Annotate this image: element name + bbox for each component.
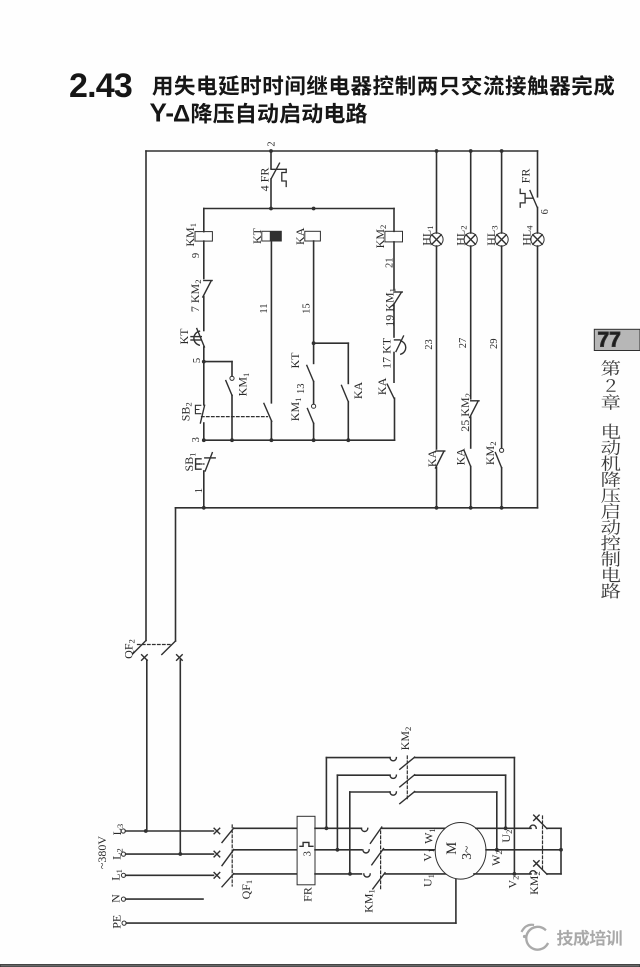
- indicator lamp HL1: [430, 233, 443, 246]
- node dot L2/KM2bypass: [336, 848, 340, 852]
- wire KM1 aux to rail3: [231, 395, 233, 440]
- wire KA to rail1 (HL2): [470, 467, 472, 508]
- mech link dashed QF2: [138, 644, 171, 646]
- bottom page border: [0, 965, 640, 967]
- wire KT-C segment: [313, 343, 315, 363]
- node dot V2: [513, 872, 517, 876]
- label M: [444, 842, 460, 855]
- label 4 FR: [258, 168, 272, 192]
- relay contact KA NO (branch D): [387, 384, 394, 398]
- wire L2 QF1-FR section: [234, 849, 297, 851]
- label KM2 (star): [527, 871, 542, 895]
- svg-text:15: 15: [301, 303, 312, 314]
- wire FR2 to HL4: [537, 208, 539, 234]
- wire KA to rail3 end: [394, 398, 396, 440]
- time relay contact KT NO (branch C): [307, 365, 314, 381]
- label HL2: [453, 225, 468, 245]
- wire KA aux to rail3: [347, 402, 349, 441]
- svg-text:FR: FR: [519, 169, 533, 184]
- label terminal V2: [506, 876, 521, 889]
- wire KTNC to KA contact: [393, 353, 395, 383]
- wire phase L3 left section: [125, 830, 213, 832]
- svg-text:L3: L3: [110, 824, 125, 836]
- indicator lamp HL4: [531, 233, 544, 246]
- node dot U2: [504, 826, 508, 830]
- aux contact KM2 normally-closed (lamp HL2 branch): [470, 401, 479, 418]
- label 19 KM1: [382, 288, 397, 327]
- terminal circle PE: [122, 921, 126, 925]
- circuit breaker QF2 pole 2: [162, 641, 182, 854]
- circuit breaker QF1 pole L1: [214, 873, 234, 887]
- wire rail4 corner down to KM2 coil: [393, 209, 395, 232]
- label contact KA (HL2 branch): [453, 448, 467, 466]
- label QF2: [122, 639, 137, 659]
- node dot rail1/HL1: [435, 506, 439, 510]
- aux contact KM2 NO (lamp HL3 branch): [495, 448, 503, 468]
- label coil KA: [293, 227, 307, 245]
- svg-text:7 KM2: 7 KM2: [188, 279, 203, 312]
- wire HL3 branch (wire 29): [501, 246, 503, 448]
- watermark text: [557, 930, 622, 946]
- contactor coil KM2: [385, 231, 403, 242]
- terminal circle N: [121, 897, 125, 901]
- label coil KM2: [373, 225, 388, 249]
- contactor KM2 delta contact row1 (L3 to V2): [326, 757, 514, 874]
- svg-text:21: 21: [385, 257, 396, 268]
- mech link dashed KM2 bypass: [406, 756, 408, 799]
- svg-text:QF1: QF1: [239, 880, 254, 900]
- node dot rail3/KM1aux: [230, 438, 234, 442]
- wire nodeC to KA aux branch: [314, 343, 349, 383]
- node dot L3/KM2bypass: [325, 826, 329, 830]
- relay contact KA NO (lamp HL2 branch): [464, 450, 471, 467]
- svg-text:29: 29: [489, 339, 500, 350]
- node dot rail1/HL3: [500, 506, 504, 510]
- wire node5 to SB2: [203, 362, 205, 405]
- wire bottom rail corner down to QF2 pole2: [175, 508, 177, 641]
- svg-text:KT: KT: [250, 227, 264, 244]
- svg-text:SB2: SB2: [178, 402, 193, 421]
- wire HL2 branch upper: [470, 151, 472, 233]
- svg-text:KM2: KM2: [527, 871, 542, 895]
- label node 5: [192, 358, 203, 363]
- svg-text:3: 3: [302, 851, 313, 856]
- thermal overload relay FR heater box: [297, 816, 315, 885]
- terminal circle L3: [121, 829, 125, 833]
- node dot branch C: [312, 341, 316, 345]
- node dot L3/QF2: [144, 829, 148, 833]
- wire HL1 branch (wire 23): [436, 246, 438, 449]
- node dot W2: [495, 848, 499, 852]
- mech link dashed QF1: [231, 825, 233, 886]
- label ~380V: [95, 836, 109, 869]
- contactor KM1 main contact L1: [364, 873, 385, 889]
- svg-text:U2: U2: [499, 830, 514, 843]
- wire HL3 branch upper: [501, 151, 503, 233]
- node dot 5: [202, 360, 206, 364]
- circuit breaker QF1 pole L3: [214, 828, 234, 843]
- svg-text:HL3: HL3: [484, 225, 499, 245]
- label L3: [110, 824, 125, 836]
- label wire number 27: [458, 338, 469, 349]
- svg-text:FR: FR: [301, 887, 315, 902]
- start pushbutton SB2 (contact b): [264, 403, 272, 421]
- wire L3 QF1-FR section: [234, 827, 297, 829]
- wire KM2NC to KA contact: [470, 417, 472, 448]
- label 25 KM2: [458, 393, 473, 432]
- node dot rail4/KA: [312, 207, 316, 211]
- label contact KT (branch C): [288, 352, 302, 369]
- label FR (power): [301, 887, 315, 902]
- label HL4: [519, 225, 534, 246]
- wire KT contact to node 5: [203, 347, 205, 362]
- svg-text:KA: KA: [351, 382, 365, 400]
- relay contact KA NO self-hold: [342, 385, 349, 401]
- title line 2: [150, 97, 368, 127]
- node dot star point: [559, 848, 563, 852]
- svg-text:PE: PE: [109, 915, 123, 929]
- svg-text:HL2: HL2: [453, 225, 468, 245]
- svg-text:QF2: QF2: [122, 639, 137, 659]
- wire KT coil to SB2b (wire 11): [270, 241, 272, 403]
- label SB1: [182, 453, 197, 472]
- svg-text:17 KT: 17 KT: [380, 337, 394, 369]
- label terminal U1: [421, 874, 436, 887]
- wire KM1 coil to KM2 NC contact (node 9): [203, 241, 205, 278]
- svg-text:6: 6: [540, 209, 551, 214]
- contactor KM1 main contact L3: [361, 827, 381, 843]
- page number box 77: [594, 329, 640, 352]
- label wire number 15: [301, 303, 312, 314]
- title line 1: [152, 75, 614, 96]
- label QF1: [239, 880, 254, 900]
- node dot rail3/KAaux: [346, 438, 350, 442]
- time relay contact KT delayed (branch A): [191, 329, 204, 348]
- stop pushbutton SB1 normally-closed: [196, 453, 216, 471]
- svg-text:5: 5: [192, 358, 203, 363]
- label contact KA (HL1 branch): [425, 449, 439, 467]
- wire W2 line: [486, 849, 561, 851]
- terminal circle L1: [121, 873, 125, 877]
- node dot net2/FR branch: [269, 149, 273, 153]
- label terminal W1: [422, 828, 437, 844]
- aux contact KM1 normally-closed (branch D): [393, 292, 402, 306]
- label contact KM1 (branch C): [288, 398, 303, 422]
- svg-text:KM2: KM2: [373, 225, 388, 249]
- start pushbutton SB2 (contact a): [195, 405, 204, 423]
- mech link dashed SB2: [202, 416, 268, 418]
- svg-text:W1: W1: [422, 828, 437, 844]
- motor M 3~: [435, 823, 486, 880]
- aux contact KM2 normally-closed (branch A): [203, 281, 212, 298]
- label contact KM2 (HL3 branch): [483, 441, 498, 465]
- node dot rail3/SB1: [202, 438, 206, 442]
- label contact KT (branch A): [177, 328, 191, 345]
- label wire number 21: [385, 257, 396, 268]
- node dot rail1/HL2: [469, 506, 473, 510]
- svg-text:KT: KT: [177, 328, 191, 345]
- label terminal V1: [421, 849, 436, 862]
- label PE: [109, 915, 123, 929]
- wire rail net 3: [204, 439, 395, 441]
- wire HL4 to bottom rail: [537, 246, 539, 508]
- contactor coil KM1: [195, 232, 212, 242]
- wire phase L2 left section: [126, 853, 214, 855]
- relay contact KA NC (lamp HL1 branch): [436, 451, 445, 468]
- wire KM2 to rail1 (HL3): [501, 468, 503, 508]
- svg-text:HL4: HL4: [519, 225, 534, 246]
- wire SB2b to rail3: [270, 421, 272, 440]
- label coil KT: [250, 227, 264, 244]
- circuit breaker QF2 pole 1: [133, 641, 148, 832]
- contactor KM2 delta contact row2 (L2 to U2): [337, 775, 505, 850]
- svg-text:Δ: Δ: [173, 100, 190, 127]
- svg-text:KT: KT: [288, 352, 302, 369]
- svg-text:1: 1: [194, 488, 205, 493]
- time relay contact KT delayed NC (branch D): [395, 336, 406, 354]
- svg-text:L2: L2: [109, 848, 124, 860]
- wire L1 FR-KM1 section: [315, 873, 361, 875]
- node dot rail4/KT: [269, 207, 273, 211]
- wire L1 QF1-FR section: [234, 873, 297, 875]
- label 7 KM2: [188, 279, 203, 312]
- svg-text:KA: KA: [425, 449, 439, 467]
- svg-text:V2: V2: [506, 876, 521, 889]
- terminal circle L2: [121, 852, 125, 856]
- wire rail net 4 (coil bus): [204, 208, 394, 210]
- contactor KM2 delta contact row3 (L1 to W2): [350, 792, 497, 874]
- svg-text:23: 23: [424, 339, 435, 350]
- svg-text:Y-: Y-: [150, 97, 175, 127]
- aux contact KM1 NO (branch C): [307, 404, 315, 423]
- sidebar chapter text: [601, 360, 620, 598]
- wire node5 to KM1 aux branch: [204, 362, 232, 376]
- svg-text:11: 11: [259, 304, 270, 314]
- wire L1 KM1-motor section: [385, 873, 448, 875]
- wire top rail net 2: [146, 150, 538, 152]
- label wire number 9: [191, 253, 202, 258]
- svg-text:KM1: KM1: [288, 398, 303, 422]
- svg-text:2.43: 2.43: [69, 67, 132, 105]
- label wire number 29: [489, 339, 500, 350]
- node dot net2/HL2 branch: [469, 149, 473, 153]
- heading number 2.43: [69, 67, 132, 105]
- svg-text:KA: KA: [375, 377, 389, 395]
- label SB2: [178, 402, 193, 421]
- svg-text:77: 77: [598, 329, 621, 352]
- label rail number 3: [191, 437, 202, 442]
- wire KA coil to node C (wire 15): [313, 241, 315, 343]
- label HL1: [420, 225, 435, 245]
- label FR (lamp branch): [519, 169, 533, 184]
- label terminal U2: [499, 830, 514, 843]
- wire neutral N: [126, 898, 203, 900]
- thermal overload contact FR (lamp branch): [520, 189, 537, 207]
- svg-text:4 FR: 4 FR: [258, 168, 272, 192]
- node dot L2/QF2: [178, 852, 182, 856]
- wire U2 line: [476, 827, 531, 829]
- wire star point vertical: [560, 828, 562, 874]
- label contact KA self-hold: [351, 382, 365, 400]
- aux contact KM1 normally-open self-hold: [226, 376, 234, 395]
- wire SB1 to bottom rail (node 1): [203, 471, 205, 508]
- wire V2 line left part: [474, 873, 531, 875]
- svg-text:3: 3: [191, 437, 202, 442]
- node dot net2/HL3 branch: [500, 149, 504, 153]
- wire L3 KM1-motor section: [382, 827, 446, 829]
- label L1: [109, 869, 124, 881]
- wire SB2 to rail3 (branch A): [203, 423, 205, 440]
- label KM2 (bypass): [398, 727, 413, 751]
- wire protective earth PE: [126, 879, 456, 923]
- svg-text:KM2: KM2: [483, 441, 498, 465]
- label KM1 (power): [362, 889, 377, 913]
- label coil KM1: [183, 223, 198, 247]
- svg-text:L1: L1: [109, 869, 124, 881]
- svg-text:19 KM1: 19 KM1: [382, 288, 397, 327]
- wire left feed from QF2 pole1 to top rail: [145, 151, 147, 641]
- node dot rail1/SB1: [202, 506, 206, 510]
- label wire number 13: [296, 384, 307, 395]
- label N: [109, 894, 123, 903]
- node dot L1/KM2bypass: [348, 872, 352, 876]
- contactor KM2 star contact upper (U2): [530, 815, 561, 829]
- relay coil KA: [305, 231, 321, 241]
- svg-text:SB1: SB1: [182, 453, 197, 472]
- wire bottom rail net 1: [176, 507, 538, 509]
- svg-text:KM1: KM1: [362, 889, 377, 913]
- wire FR to rail 4: [270, 179, 272, 209]
- svg-text:KA: KA: [453, 448, 467, 466]
- label 3 (FR poles): [302, 851, 313, 856]
- wire rail3 to SB1: [0, 0, 1, 1]
- wire segments branch C lower: [313, 382, 315, 441]
- node dot net2/HL1 branch: [435, 149, 439, 153]
- svg-text:W2: W2: [489, 850, 504, 866]
- wire top rail corner down to FR2: [537, 151, 539, 197]
- label L2: [109, 848, 124, 860]
- svg-text:~380V: ~380V: [95, 836, 109, 869]
- contactor KM2 star contact lower (V2): [530, 861, 561, 875]
- wire KM2 coil to KM1-NC (node 21): [393, 242, 395, 290]
- node dot rail3/branchC: [312, 438, 316, 442]
- svg-text:N: N: [109, 894, 123, 903]
- watermark logo: [522, 925, 548, 950]
- label 3~: [459, 846, 474, 860]
- wire L3 FR-KM1 section: [315, 827, 361, 829]
- label 17 KT: [380, 337, 394, 369]
- label wire number 11: [259, 304, 270, 314]
- svg-text:27: 27: [458, 338, 469, 349]
- svg-text:KM1: KM1: [183, 223, 198, 247]
- svg-text:HL1: HL1: [420, 225, 435, 245]
- wire HL1 branch upper: [436, 151, 438, 233]
- label contact KM1 self-hold: [236, 373, 251, 397]
- svg-text:3~: 3~: [459, 846, 474, 860]
- label HL3: [484, 225, 499, 245]
- time relay coil KT: [262, 231, 282, 241]
- thermal overload contact FR (control): [271, 163, 286, 186]
- circuit breaker QF1 pole L2: [214, 850, 234, 866]
- label contact KA (branch D): [375, 377, 389, 395]
- mech link dashed KM1: [380, 831, 382, 890]
- wire L2 FR-KM1 section: [315, 849, 361, 851]
- wire phase L1 left section: [126, 874, 214, 876]
- svg-text:9: 9: [191, 253, 202, 258]
- label wire number 6: [540, 209, 551, 214]
- label wire number 2: [266, 141, 277, 146]
- node dot rail3/wire11: [270, 438, 274, 442]
- wire rail4 corner down to KM1 coil: [203, 209, 205, 232]
- wire L2 KM1-motor section: [384, 849, 437, 851]
- label wire number 23: [424, 339, 435, 350]
- wire KM2-NC to KT delayed contact (node 7): [203, 297, 205, 331]
- svg-text:KM1: KM1: [236, 373, 251, 397]
- label wire number 1: [194, 488, 205, 493]
- label terminal W2: [489, 850, 504, 866]
- svg-text:M: M: [444, 842, 460, 855]
- svg-text:13: 13: [296, 384, 307, 395]
- svg-text:U1: U1: [421, 874, 436, 887]
- svg-text:KM2: KM2: [398, 727, 413, 751]
- wire HL2 branch (wire 27): [470, 246, 472, 399]
- indicator lamp HL3: [495, 233, 508, 246]
- wire KA-NC to rail1: [436, 468, 438, 508]
- svg-text:KA: KA: [293, 227, 307, 245]
- mech link dashed KM2 star: [542, 816, 544, 871]
- svg-text:2: 2: [266, 141, 277, 146]
- wire net2 drop to FR contact: [270, 151, 272, 169]
- contactor KM1 main contact L2: [363, 849, 384, 865]
- wire KM1NC to KT-NC: [393, 305, 395, 337]
- indicator lamp HL2: [464, 233, 477, 246]
